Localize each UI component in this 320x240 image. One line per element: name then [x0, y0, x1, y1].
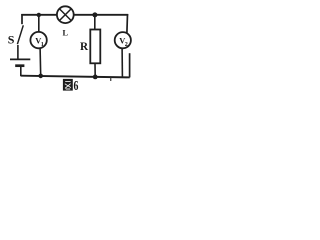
svg-text:6: 6	[74, 77, 79, 93]
wire R branch lower	[94, 63, 96, 77]
node junction R bottom	[93, 75, 98, 80]
wire R branch upper	[94, 15, 96, 30]
wire top horizontal	[21, 14, 128, 16]
lamp L	[57, 6, 74, 23]
battery short plate	[15, 64, 24, 67]
wire left rail upper	[21, 14, 23, 24]
wire bottom horizontal	[21, 76, 130, 78]
svg-text:1: 1	[41, 42, 44, 48]
svg-text:S: S	[8, 33, 15, 47]
wire battery to bottom	[20, 66, 22, 76]
switch S blade	[17, 25, 23, 44]
svg-text:R: R	[80, 41, 89, 53]
node junction V1 bottom	[38, 74, 43, 79]
caption 图6 glyph block	[63, 79, 73, 91]
wire bottom-right hook up	[129, 53, 131, 77]
wire V2 branch lower	[121, 48, 123, 76]
stray scan mark	[110, 78, 111, 81]
wire V1 branch upper	[38, 15, 40, 33]
node junction R top	[92, 12, 97, 17]
voltmeter V1	[30, 32, 46, 48]
node junction V1 top	[37, 13, 41, 17]
svg-text:L: L	[63, 29, 69, 38]
voltmeter V2	[115, 32, 131, 48]
resistor R body	[90, 30, 100, 64]
wire V1 branch lower	[39, 48, 42, 76]
wire V2 branch upper / top-right corner	[126, 14, 129, 33]
battery long plate	[10, 58, 30, 60]
wire switch to battery	[17, 45, 19, 60]
svg-text:2: 2	[125, 42, 128, 48]
